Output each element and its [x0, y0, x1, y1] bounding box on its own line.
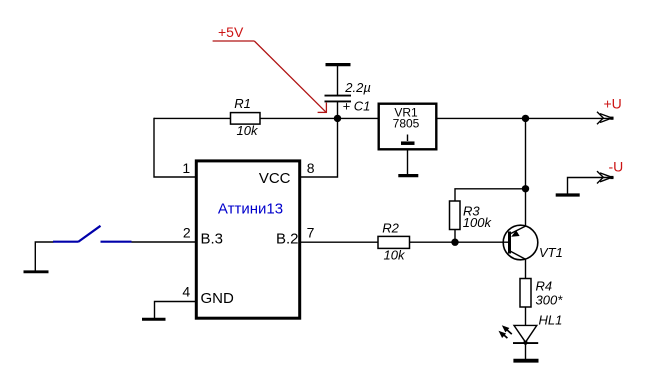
- svg-text:R2: R2: [382, 221, 399, 236]
- svg-text:R4: R4: [536, 279, 553, 294]
- svg-text:8: 8: [307, 160, 315, 176]
- svg-text:HL1: HL1: [539, 313, 563, 328]
- svg-text:2.2µ: 2.2µ: [344, 80, 371, 95]
- svg-text:VCC: VCC: [259, 170, 291, 187]
- svg-text:Аттини13: Аттини13: [218, 201, 283, 218]
- svg-text:1: 1: [182, 160, 190, 176]
- svg-text:+5V: +5V: [218, 24, 244, 40]
- svg-text:+U: +U: [604, 96, 622, 112]
- svg-text:B.2: B.2: [276, 231, 299, 248]
- svg-text:B.3: B.3: [201, 231, 224, 248]
- svg-text:10k: 10k: [237, 123, 259, 138]
- svg-text:2: 2: [183, 225, 191, 241]
- svg-text:7: 7: [307, 225, 315, 241]
- svg-text:100k: 100k: [463, 215, 493, 230]
- svg-text:7805: 7805: [393, 117, 420, 131]
- svg-text:VT1: VT1: [539, 245, 563, 260]
- svg-text:10k: 10k: [384, 248, 406, 263]
- svg-text:-U: -U: [609, 159, 624, 175]
- svg-text:GND: GND: [201, 290, 235, 307]
- svg-text:300*: 300*: [536, 293, 564, 308]
- svg-text:R1: R1: [234, 96, 251, 111]
- svg-text:4: 4: [182, 284, 190, 300]
- svg-text:+ C1: + C1: [343, 99, 371, 114]
